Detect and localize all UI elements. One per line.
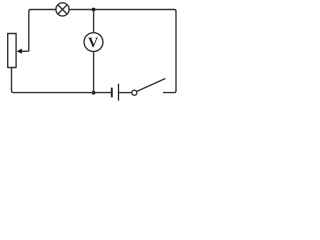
lamp L1 bbox=[56, 3, 69, 16]
rheostat R track bbox=[8, 34, 16, 68]
wire rheostat bottom lead and bottom wire to battery bbox=[12, 68, 112, 93]
rheostat wiper arrow bbox=[17, 49, 29, 54]
wire left riser and top wire to lamp bbox=[29, 10, 56, 52]
switch S1 open bbox=[132, 79, 166, 96]
voltmeter V1 bbox=[84, 33, 103, 52]
wire battery to switch bbox=[119, 92, 132, 94]
battery cell B1 bbox=[112, 84, 119, 101]
wire voltmeter top lead bbox=[93, 10, 95, 33]
wire top from lamp to right side down to switch contact bbox=[69, 10, 176, 93]
node junction top bbox=[92, 8, 96, 12]
node junction bottom bbox=[92, 91, 96, 95]
wire voltmeter bottom lead bbox=[93, 51, 95, 92]
